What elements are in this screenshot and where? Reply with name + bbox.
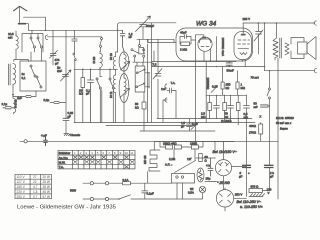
speaker magnet [291, 38, 304, 59]
capacitor C16 [228, 106, 234, 109]
svg-text:100000Ω 4mA: 100000Ω 4mA [221, 38, 225, 57]
coil L6 [113, 75, 115, 93]
svg-text:T.A.: T.A. [171, 81, 176, 85]
switch S2a [30, 65, 36, 77]
wire antenna to tuner [48, 36, 102, 38]
wire antenna lead [19, 7, 21, 24]
svg-text:T.A.: T.A. [59, 165, 64, 169]
switch S9 [73, 53, 76, 61]
wire down right [269, 71, 271, 88]
svg-text:1,8: 1,8 [33, 190, 38, 194]
svg-text:270Ω: 270Ω [249, 131, 257, 135]
node [148, 86, 150, 88]
terminal hook [313, 69, 317, 73]
wire box band switch top [22, 34, 43, 62]
wire [152, 51, 154, 67]
wire [264, 43, 266, 71]
ground hatch [249, 194, 265, 197]
antenna [14, 6, 27, 11]
X marks row3 [74, 161, 135, 164]
connector circle [105, 182, 108, 185]
capacitor C7 [88, 69, 94, 122]
coil L1 antenna [16, 36, 18, 49]
svg-text:mH: mH [8, 35, 13, 39]
svg-text:μF: μF [270, 175, 274, 179]
svg-text:50W: 50W [70, 189, 76, 193]
trimmer arrow [254, 30, 263, 41]
coil LC [124, 78, 126, 123]
svg-text:27: 27 [33, 175, 37, 179]
capacitor C29 [72, 39, 77, 41]
svg-text:500pF: 500pF [146, 24, 154, 28]
resistor R3 2MOhm [181, 42, 190, 46]
resistor R11 800ohm [249, 189, 263, 193]
switch S1a [30, 37, 36, 48]
svg-text:1nF: 1nF [161, 87, 166, 91]
wire [260, 123, 262, 142]
wire [82, 69, 84, 122]
svg-text:127 V: 127 V [17, 180, 26, 184]
wire [205, 142, 217, 182]
ground chassis [64, 121, 70, 136]
table text [17, 175, 50, 199]
svg-text:220 V: 220 V [17, 190, 26, 194]
node [65, 75, 67, 77]
X marks row4 [125, 165, 129, 168]
svg-text:(2,1MΩ): (2,1MΩ) [221, 119, 232, 123]
electrolytic C19 [265, 165, 274, 167]
svg-text:12Γ: 12Γ [187, 157, 192, 161]
svg-text:nF: nF [129, 35, 133, 39]
svg-text:Di 26: Di 26 [92, 56, 96, 63]
tube shield box WG34 [176, 28, 253, 61]
wire [223, 67, 238, 96]
svg-text:250 V: 250 V [235, 193, 243, 197]
svg-text:2nF: 2nF [57, 69, 62, 73]
wire [177, 149, 195, 199]
node A [45, 30, 47, 32]
core [280, 38, 282, 58]
wire grid feed [137, 39, 176, 42]
svg-text:22: 22 [33, 180, 37, 184]
svg-text:150 V: 150 V [17, 185, 26, 189]
svg-text:mF: mF [254, 105, 258, 109]
coil L4 [100, 54, 102, 68]
coil L5 [113, 57, 115, 70]
wire [160, 142, 203, 148]
capacitor C10 [256, 23, 262, 40]
switch S1b [37, 37, 43, 48]
resistor R9 [192, 145, 199, 149]
wire vertical main left [65, 30, 67, 118]
svg-text:10: 10 [125, 151, 129, 155]
svg-text:Schieber: Schieber [59, 151, 70, 155]
svg-text:2,1μ: 2,1μ [2, 102, 8, 106]
capacitor C6 feedthrough 4uF [44, 137, 48, 146]
speaker cone [307, 37, 316, 60]
wire [163, 91, 176, 123]
svg-text:S·2-11: S·2-11 [14, 99, 18, 108]
switch S8b [136, 83, 145, 88]
svg-text:Di 13: Di 13 [109, 53, 113, 60]
svg-text:250 V: 250 V [17, 195, 26, 199]
svg-text:0,1μF: 0,1μF [147, 192, 155, 196]
node [276, 22, 278, 24]
tube V1 [196, 35, 212, 62]
output tube V2 [234, 23, 251, 67]
switch box main [20, 61, 46, 91]
svg-text:Bd.Nr. 3/5010: Bd.Nr. 3/5010 [276, 116, 294, 120]
svg-text:1: 1 [74, 151, 76, 155]
fuse 0,1A [123, 182, 131, 185]
svg-text:110 V: 110 V [17, 175, 26, 179]
svg-text:μF: μF [68, 115, 72, 119]
svg-text:136Ω: 136Ω [190, 142, 198, 146]
contact dot [118, 198, 120, 200]
capacitor trimmer [153, 69, 162, 80]
resistor R10 [199, 154, 203, 162]
bus line1 [157, 118, 252, 120]
terminal circle [24, 140, 27, 143]
legend table [58, 150, 135, 169]
switch box IF [135, 66, 145, 92]
rectifier tube V3 [215, 142, 231, 190]
svg-text:μF: μF [86, 92, 90, 96]
svg-text:Loewe - Gildemeister GW - Jahr: Loewe - Gildemeister GW - Jahr 1935 [17, 205, 117, 211]
wire [210, 95, 247, 125]
svg-text:400Ω: 400Ω [249, 124, 257, 128]
node [264, 66, 266, 68]
switch mains2 [119, 195, 131, 199]
capacitor C9 40pF [180, 35, 191, 39]
connector circle [90, 182, 93, 185]
wire [137, 62, 149, 88]
lamp oval [197, 168, 204, 182]
IF can oval lower [119, 74, 129, 103]
node [90, 69, 92, 71]
connector circle [90, 197, 93, 200]
switch S8a [136, 69, 145, 74]
mains line1 [83, 182, 172, 184]
svg-text:Di 11: Di 11 [109, 91, 113, 98]
wire [24, 17, 46, 30]
voltage table [15, 174, 51, 198]
node [109, 69, 111, 71]
node [99, 69, 101, 71]
output transformer secondary [285, 43, 289, 55]
svg-text:8: 8 [114, 151, 116, 155]
bus line4 [140, 130, 215, 132]
wire [29, 29, 123, 31]
svg-text:2,2Ω: 2,2Ω [169, 157, 176, 161]
svg-text:28 W: 28 W [43, 185, 50, 189]
electrolytic C18 [243, 165, 251, 167]
resistor R4 [208, 103, 212, 111]
contact box [172, 174, 195, 184]
node [257, 22, 259, 24]
coil L2 main [13, 64, 16, 85]
capacitor C17 [244, 106, 250, 109]
X marks row2 [74, 156, 129, 159]
svg-text:800 Ω: 800 Ω [251, 185, 260, 189]
wire bracket feed [153, 141, 155, 150]
svg-text:Ω: Ω [205, 159, 208, 163]
switch S5 [96, 78, 101, 123]
svg-text:20 W: 20 W [43, 175, 50, 179]
capacitor C4 0,2uF [50, 102, 66, 104]
wire tier link [206, 94, 246, 96]
wire [26, 24, 33, 34]
wire [216, 37, 218, 62]
svg-text:70 mA: 70 mA [251, 76, 259, 80]
terminal hook [165, 84, 167, 88]
node [269, 70, 271, 72]
wire screen rail [152, 61, 236, 63]
wire [205, 62, 207, 123]
wire chassis line [20, 140, 278, 142]
core [9, 64, 11, 85]
svg-text:50 mF am x: 50 mF am x [276, 121, 292, 125]
wire [147, 172, 149, 184]
svg-text:x: x [260, 115, 262, 119]
wire [247, 160, 279, 199]
svg-text:6: 6 [103, 151, 105, 155]
wire [263, 168, 270, 191]
capacitor C27 0,1uF [142, 183, 148, 199]
node [216, 66, 218, 68]
switch S7 [267, 88, 271, 165]
node [264, 22, 266, 24]
capacitor C5 trimmer 2nF [61, 69, 72, 82]
resistor R2 [142, 102, 146, 109]
wire grid loop [180, 37, 196, 45]
wire [12, 85, 14, 99]
node [12, 94, 14, 96]
svg-text:Chassis: Chassis [70, 133, 81, 137]
svg-text:0,1A: 0,1A [123, 178, 129, 182]
speaker inner [298, 42, 308, 54]
power section top wire [155, 141, 234, 143]
resistor R5 [223, 103, 227, 111]
terminal hook [165, 98, 167, 102]
svg-text:M.W.: M.W. [59, 161, 66, 165]
node [82, 69, 84, 71]
wire [196, 157, 215, 159]
capacitor antenna series [19, 23, 26, 25]
resistor R7 [166, 145, 173, 149]
capacitor C15 [214, 106, 220, 109]
svg-text:0,7: 0,7 [33, 195, 38, 199]
wire [259, 23, 265, 54]
wire long vertical [147, 39, 149, 122]
contact [176, 176, 178, 178]
wire [100, 52, 102, 123]
wire right verticals [246, 108, 248, 192]
svg-text:5: 5 [97, 151, 99, 155]
wire [116, 52, 118, 123]
capacitor C14 [187, 119, 193, 131]
svg-text:+: + [248, 171, 250, 175]
terminal hook [314, 21, 316, 25]
svg-text:45 W: 45 W [43, 190, 50, 194]
legend numbers [74, 151, 134, 155]
svg-text:4: 4 [91, 151, 93, 155]
trimmer arrow core1 [121, 61, 130, 70]
resistor R8 [175, 145, 182, 149]
wire rail2 [152, 66, 265, 68]
svg-text:μF: μF [239, 175, 243, 179]
svg-text:11: 11 [130, 151, 133, 155]
resistor R6 [236, 103, 240, 111]
svg-text:liegen: liegen [280, 127, 288, 131]
capacitor C25 0,25uF [63, 118, 69, 120]
svg-text:50mF: 50mF [227, 69, 235, 73]
connector circle [105, 197, 108, 200]
svg-text:0,5A: 0,5A [188, 191, 194, 195]
svg-text:μF: μF [181, 125, 185, 129]
svg-text:* 25 NG: * 25 NG [217, 181, 230, 185]
capacitor C12 50mF [226, 62, 232, 67]
output transformer primary [273, 23, 278, 60]
svg-text:7,5: 7,5 [153, 63, 157, 67]
wire [14, 31, 28, 62]
wire [143, 92, 145, 131]
svg-text:4,7: 4,7 [33, 185, 38, 189]
capacitor C24 2uF [3, 107, 13, 109]
node [117, 30, 119, 32]
svg-text:57 W: 57 W [43, 195, 50, 199]
svg-text:kΩ: kΩ [135, 106, 139, 110]
svg-text:An.11a: An.11a [59, 156, 68, 160]
wire long vertical2 [151, 23, 153, 123]
tube V4 [216, 188, 246, 211]
wire main bus left [74, 68, 118, 70]
node [148, 72, 150, 74]
switch S3 [100, 37, 103, 52]
trimmer arrow core2 [120, 88, 130, 97]
svg-text:4 b: 4 b [206, 164, 210, 168]
svg-text:MΩ: MΩ [241, 86, 246, 90]
wire [277, 58, 279, 160]
node [228, 66, 230, 68]
svg-text:3: 3 [85, 151, 87, 155]
coil L3 bottom [13, 98, 15, 114]
svg-text:2: 2 [80, 151, 82, 155]
svg-text:u. 110-250 V=: u. 110-250 V= [240, 205, 262, 209]
switch cluster S4 [131, 39, 152, 62]
wire rail3 [265, 70, 314, 72]
resistor R13 250k [221, 82, 224, 89]
svg-text:V: V [268, 191, 270, 195]
wire [232, 166, 247, 168]
trimmer arrow [211, 86, 218, 93]
IF can oval upper [119, 52, 129, 71]
resistor R1 [81, 78, 85, 88]
capacitor C11 50mF [261, 105, 270, 107]
resistor R12 400ohm [259, 124, 263, 134]
wire plate supply top [243, 22, 313, 24]
svg-text:0,1: 0,1 [22, 76, 26, 80]
bus line2 [74, 122, 255, 124]
wire top mid horizontal [118, 23, 176, 52]
svg-text:100000Ω: 100000Ω [206, 78, 210, 91]
svg-text:Bei 110-250 V~: Bei 110-250 V~ [237, 200, 262, 204]
coil LB [124, 51, 126, 78]
svg-text:4 μF: 4 μF [41, 134, 47, 138]
variable capacitor 500pF [136, 16, 151, 39]
svg-text:MD 26: MD 26 [143, 155, 147, 164]
wire [74, 30, 76, 122]
svg-text:285 V: 285 V [243, 17, 251, 21]
svg-text:WG 34: WG 34 [196, 21, 217, 28]
svg-text:9: 9 [120, 151, 122, 155]
svg-text:Bei 110/150 V~: Bei 110/150 V~ [213, 150, 237, 154]
capacitor C26 [120, 30, 125, 51]
svg-text:2 MΩ: 2 MΩ [180, 48, 188, 52]
switch mains big [175, 161, 196, 173]
wire vertical 195 [195, 35, 197, 145]
svg-text:25 W: 25 W [43, 180, 50, 184]
svg-text:7: 7 [108, 151, 110, 155]
mains line2 [83, 193, 203, 199]
bracket shape linkage [149, 150, 160, 171]
capacitor C3 2uF [13, 91, 36, 98]
svg-text:0,2μ: 0,2μ [44, 98, 50, 102]
wire [173, 149, 175, 160]
trimmer arrow2 [191, 123, 199, 130]
resistor R14 1M [236, 82, 239, 89]
terminal hook [45, 35, 47, 40]
svg-text:A.F.→: A.F.→ [165, 163, 173, 167]
svg-text:40pF: 40pF [180, 31, 187, 35]
contact [181, 176, 183, 178]
capacitor C28 [208, 158, 213, 176]
svg-text:2μF: 2μF [17, 96, 22, 100]
svg-text:25μ: 25μ [206, 177, 211, 181]
bus line3 [106, 125, 195, 127]
capacitor C2 470pF trimmer [50, 30, 58, 65]
switch S2b [36, 76, 42, 88]
lamp symbol [199, 186, 205, 192]
wire vertical right of oval [157, 43, 159, 119]
capacitor C13 1nF [167, 88, 176, 93]
svg-text:2μ: 2μ [57, 66, 61, 70]
switch S6 [109, 69, 114, 122]
